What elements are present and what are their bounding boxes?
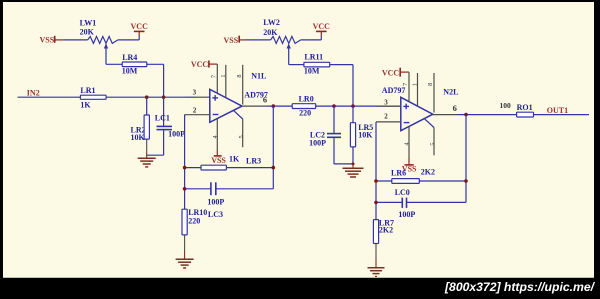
- svg-text:100P: 100P: [168, 130, 185, 139]
- svg-text:RO1: RO1: [517, 103, 533, 112]
- svg-text:1: 1: [412, 83, 419, 86]
- svg-text:VSS: VSS: [40, 35, 55, 44]
- svg-text:VCC: VCC: [382, 68, 400, 77]
- svg-text:220: 220: [188, 216, 200, 225]
- svg-text:VCC: VCC: [191, 60, 209, 69]
- svg-text:LR11: LR11: [304, 53, 323, 62]
- svg-text:1K: 1K: [80, 101, 91, 110]
- svg-text:10K: 10K: [358, 131, 373, 140]
- svg-text:3: 3: [384, 98, 388, 106]
- svg-text:VCC: VCC: [131, 22, 149, 31]
- svg-text:IN2: IN2: [27, 88, 40, 97]
- svg-text:20K: 20K: [80, 27, 95, 36]
- svg-text:VCC: VCC: [313, 22, 331, 31]
- svg-text:20K: 20K: [263, 28, 278, 37]
- svg-text:5: 5: [430, 143, 437, 146]
- svg-text:VSS: VSS: [224, 36, 239, 45]
- svg-text:3: 3: [193, 89, 197, 97]
- svg-text:LC0: LC0: [395, 188, 410, 197]
- svg-text:LW2: LW2: [263, 18, 280, 27]
- svg-text:2K2: 2K2: [379, 226, 393, 235]
- svg-text:2: 2: [384, 112, 388, 120]
- svg-text:LR4: LR4: [122, 53, 137, 62]
- svg-text:LC1: LC1: [155, 114, 170, 123]
- svg-text:2: 2: [193, 106, 197, 114]
- svg-text:7: 7: [210, 75, 217, 78]
- svg-text:N2L: N2L: [443, 88, 458, 97]
- svg-text:2K2: 2K2: [421, 168, 435, 177]
- svg-text:100P: 100P: [207, 198, 224, 207]
- svg-text:6: 6: [263, 95, 267, 105]
- svg-text:LR6: LR6: [391, 168, 406, 177]
- svg-text:LW1: LW1: [80, 18, 97, 27]
- svg-text:10M: 10M: [304, 67, 320, 76]
- svg-text:1K: 1K: [229, 155, 240, 164]
- svg-text:1: 1: [220, 75, 227, 78]
- svg-text:220: 220: [299, 108, 311, 117]
- svg-text:10M: 10M: [122, 66, 138, 75]
- svg-text:5: 5: [238, 135, 245, 138]
- svg-text:100P: 100P: [398, 210, 415, 219]
- svg-text:6: 6: [453, 103, 457, 113]
- svg-text:LR0: LR0: [299, 94, 314, 103]
- svg-text:8: 8: [236, 74, 243, 77]
- svg-text:LR1: LR1: [80, 86, 95, 95]
- svg-text:AD797: AD797: [382, 86, 406, 95]
- svg-text:10K: 10K: [131, 133, 146, 142]
- svg-text:VSS: VSS: [211, 156, 226, 165]
- svg-text:LC3: LC3: [208, 210, 223, 219]
- svg-text:LR3: LR3: [246, 156, 261, 165]
- svg-text:8: 8: [427, 83, 434, 86]
- svg-text:OUT1: OUT1: [547, 106, 568, 115]
- svg-text:100: 100: [500, 101, 512, 110]
- svg-text:N1L: N1L: [251, 71, 266, 80]
- svg-text:100P: 100P: [309, 139, 326, 148]
